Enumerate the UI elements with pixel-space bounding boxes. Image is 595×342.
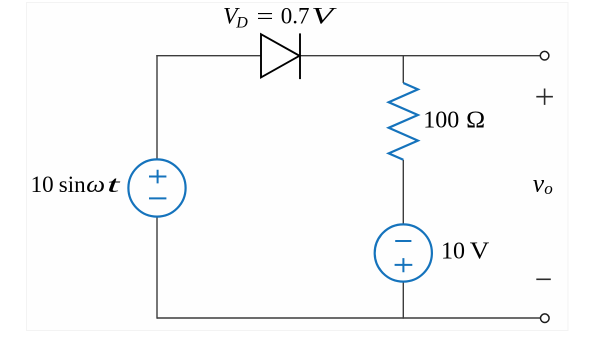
terminal bottom-right [541, 314, 550, 323]
diode D1 [261, 33, 300, 79]
wire left vertical upper [156, 55, 158, 160]
source V2 circle [375, 224, 432, 281]
terminal top-right [540, 51, 549, 60]
wire top-right horizontal [300, 55, 540, 57]
source V1 minus [149, 197, 166, 199]
wire left vertical lower [156, 216, 158, 318]
wire middle vertical lower [402, 281, 404, 318]
wire top-left horizontal [157, 54, 261, 57]
source V1 plus [149, 170, 166, 184]
source V2 plus (bottom) [395, 258, 413, 272]
source V1 circle [128, 159, 185, 216]
output plus label [536, 89, 553, 105]
resistor R1 100 ohm [389, 83, 418, 160]
source V2 minus (top) [395, 240, 411, 242]
wire middle vertical upper [402, 56, 404, 83]
svg-text:10sinωt: 10sinωt [31, 172, 121, 197]
wire middle between resistor and source [402, 160, 404, 225]
svg-text:100Ω: 100Ω [423, 107, 485, 133]
wire bottom horizontal [157, 317, 540, 319]
output minus label [536, 278, 551, 280]
